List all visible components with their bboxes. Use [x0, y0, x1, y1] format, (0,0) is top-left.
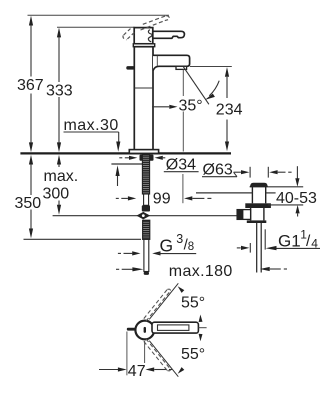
dimension arrows O34	[119, 157, 122, 159]
dimension arrows O63	[234, 171, 241, 173]
lever joint squiggle	[148, 30, 152, 42]
svg-text:/: /	[306, 233, 311, 250]
dimension 99	[116, 197, 119, 199]
counter / mounting surface line	[20, 152, 231, 154]
dimension max.180	[116, 268, 119, 270]
faucet: cartridge box	[134, 28, 153, 44]
G3/8 threaded stud	[143, 220, 150, 239]
collar under box	[133, 44, 154, 47]
svg-text:4: 4	[311, 237, 318, 251]
svg-text:G: G	[160, 236, 174, 256]
shank lower plain section	[144, 194, 149, 205]
threaded shank	[142, 155, 149, 194]
body seam	[134, 87, 153, 89]
spout	[153, 55, 190, 70]
svg-text:300: 300	[43, 186, 70, 203]
svg-text:99: 99	[153, 191, 171, 208]
drain neck	[251, 187, 253, 204]
svg-text:35°: 35°	[179, 98, 203, 115]
mounting nut under counter	[140, 155, 154, 161]
55 deg leader line up	[149, 283, 178, 319]
svg-text:max.: max.	[44, 168, 79, 185]
drain lower band	[247, 220, 266, 223]
lever back end (dashed)	[123, 29, 134, 40]
svg-text:max.180: max.180	[169, 263, 233, 280]
svg-text:G1: G1	[278, 231, 301, 250]
extension line top (367 level, top of raised lever)	[28, 14, 170, 16]
extension line spout outlet level	[190, 66, 232, 68]
supply node diamond	[136, 212, 150, 220]
rotation arc arrows at lever	[199, 315, 203, 323]
pop-up rod	[144, 239, 149, 271]
svg-text:350: 350	[15, 195, 42, 212]
raised lever 55 up (dashed)	[144, 289, 171, 321]
faucet body column	[134, 47, 153, 150]
svg-text:55°: 55°	[181, 346, 205, 363]
top view: lever	[152, 322, 198, 333]
svg-text:Ø63: Ø63	[203, 162, 233, 179]
dimension G3/8	[118, 252, 121, 254]
top view: back lug	[127, 328, 136, 331]
svg-text:max.30: max.30	[64, 117, 119, 134]
spout seam	[156, 56, 158, 66]
drain tailpipe	[256, 223, 258, 273]
lever handle (solid)	[153, 31, 185, 38]
counter underside line (max.30)	[111, 163, 142, 165]
hose-end level line (350)	[24, 238, 142, 240]
lowered lever 55 down (dashed)	[144, 339, 171, 371]
dimension line 333	[58, 37, 60, 144]
40-53 upper extension line	[268, 186, 303, 188]
top view: center slot	[144, 327, 146, 333]
svg-text:8: 8	[188, 241, 194, 253]
drain side port	[237, 210, 251, 220]
aerator	[176, 66, 187, 69]
top view: faucet body circle	[135, 321, 154, 340]
dimension 47	[126, 332, 128, 376]
35 deg pointer arrow	[152, 106, 169, 108]
svg-text:47: 47	[128, 363, 146, 380]
dimension line 234	[225, 67, 229, 77]
svg-text:367: 367	[17, 77, 44, 94]
dimension line max.300 (below counter)	[57, 155, 61, 165]
drain plug cap	[250, 183, 268, 187]
raised lever (dashed position)	[141, 16, 170, 30]
drain locking nut	[245, 203, 271, 208]
svg-text:3: 3	[176, 232, 183, 246]
55 deg leader line down	[149, 341, 178, 377]
spout outlet extension line (vertical)	[182, 70, 184, 204]
dimension 40-53	[296, 166, 298, 178]
base flange	[129, 150, 158, 154]
dimension line 367	[30, 25, 32, 144]
svg-text:55°: 55°	[181, 295, 205, 312]
35 deg arc with arrowhead	[209, 81, 219, 96]
top view: lever centerline stub	[198, 327, 206, 329]
dimension G1 1/4	[237, 247, 241, 249]
svg-text:333: 333	[46, 83, 73, 100]
svg-text:234: 234	[216, 102, 243, 119]
back lug	[126, 66, 134, 70]
basin surface line (drain side)	[196, 192, 252, 194]
extension line (333 level, top of cartridge box)	[57, 26, 135, 28]
svg-text:40-53: 40-53	[276, 190, 317, 207]
drain body	[250, 208, 252, 220]
svg-text:Ø34: Ø34	[166, 157, 196, 174]
hose coupling nut	[142, 205, 150, 211]
supply connection level line	[53, 215, 238, 217]
35 deg stream line	[183, 67, 209, 105]
dimension line 350 (below counter)	[29, 155, 33, 165]
